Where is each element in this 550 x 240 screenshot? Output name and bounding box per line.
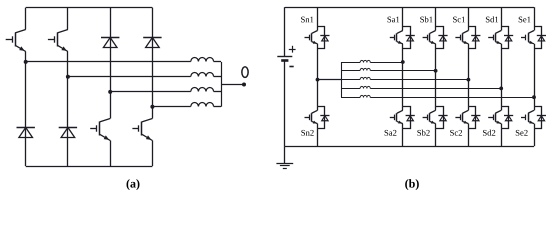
wire leg2 lower segment bbox=[67, 52, 69, 167]
inductor L3 bbox=[191, 88, 214, 92]
wire leg n bottom segment bbox=[317, 128, 319, 146]
switch Sa2 (IGBT + antiparallel diode) bbox=[385, 106, 415, 135]
wire leg b top segment bbox=[435, 7, 437, 26]
switch Sn2 (IGBT + antiparallel diode) bbox=[301, 106, 329, 135]
node leg e midpoint junction bbox=[532, 95, 536, 99]
node leg3 midpoint junction bbox=[108, 90, 112, 94]
switch Sc2 (IGBT + antiparallel diode) bbox=[450, 106, 480, 135]
ground bbox=[276, 164, 293, 169]
switch Se2 (IGBT + antiparallel diode) bbox=[516, 106, 546, 135]
wire output lead to node O bbox=[221, 84, 244, 86]
transistor Q2 (IGBT, leg2 top) bbox=[48, 30, 68, 52]
diode D4 (leg4 top) bbox=[143, 38, 161, 48]
wire leg4 upper segment bbox=[152, 8, 154, 119]
wire bottom DC rail (b) bbox=[285, 146, 534, 148]
wire leg3 upper segment bbox=[110, 8, 112, 119]
node leg c midpoint junction bbox=[467, 78, 471, 82]
wire leg2 midpoint to L2 bbox=[68, 76, 191, 78]
node leg d midpoint junction bbox=[499, 87, 503, 91]
inductor winding La (coupled) bbox=[360, 60, 370, 62]
node leg b midpoint junction bbox=[434, 69, 438, 73]
transistor Q3 (IGBT, leg3 bottom) bbox=[90, 119, 110, 141]
wire winding 1 to leg a bbox=[370, 62, 403, 64]
inductor L2 bbox=[191, 73, 214, 77]
wire L3 to output bus bbox=[214, 91, 221, 93]
wire leg3 emitter segment bbox=[110, 141, 112, 167]
wire leg a middle segment bbox=[402, 49, 404, 107]
wire bus to winding 1 bbox=[341, 62, 360, 64]
wire leg c bottom segment bbox=[468, 128, 470, 146]
wire L4 to output bus bbox=[214, 106, 221, 108]
wire bus to winding 4 bbox=[341, 88, 360, 90]
transistor Q1 (IGBT, leg1 top) bbox=[6, 30, 26, 52]
diode D3 (leg3 top) bbox=[101, 38, 119, 48]
wire leg1 midpoint to L1 bbox=[26, 61, 191, 63]
label (a) bbox=[127, 179, 140, 190]
wire leg d top segment bbox=[501, 7, 503, 26]
wire leg e middle segment bbox=[534, 49, 536, 107]
wire ground lead bbox=[284, 146, 286, 163]
wire winding 3 to leg c bbox=[370, 79, 468, 81]
switch Sc1 (IGBT + antiparallel diode) bbox=[453, 17, 480, 49]
wire leg e bottom segment bbox=[534, 128, 536, 146]
inductor winding Lc (coupled) bbox=[360, 77, 370, 79]
wire leg n middle segment bbox=[317, 49, 319, 107]
switch Sn1 (IGBT + antiparallel diode) bbox=[301, 17, 329, 49]
node leg a midpoint junction bbox=[401, 60, 405, 64]
inductor L1 bbox=[191, 58, 214, 62]
transistor Q4 (IGBT, leg4 bottom) bbox=[132, 119, 152, 141]
wire top DC rail (b) bbox=[285, 7, 534, 9]
wire L2 to output bus bbox=[214, 76, 221, 78]
wire leg2 collector segment bbox=[67, 8, 69, 30]
wire leg d middle segment bbox=[501, 49, 503, 107]
wire winding 2 to leg b bbox=[370, 70, 435, 72]
wire leg1 collector segment bbox=[25, 8, 27, 30]
wire leg a bottom segment bbox=[402, 128, 404, 146]
wire L1 to output bus bbox=[214, 61, 221, 63]
diode D5 (leg1 bottom) bbox=[17, 128, 35, 138]
wire winding 4 to leg d bbox=[370, 88, 501, 90]
switch Sd1 (IGBT + antiparallel diode) bbox=[486, 16, 513, 48]
node Sn leg midpoint junction bbox=[316, 78, 320, 82]
wire winding 5 to leg e bbox=[370, 97, 534, 99]
node leg1 midpoint junction bbox=[24, 60, 28, 64]
wire Sn midpoint to inductor bus bbox=[318, 79, 342, 81]
wire battery negative lead bbox=[284, 60, 286, 146]
wire leg c top segment bbox=[468, 7, 470, 26]
inductor L4 bbox=[191, 102, 214, 106]
wire leg3 midpoint to L3 bbox=[110, 91, 191, 93]
node leg2 midpoint junction bbox=[66, 75, 70, 79]
label node O bbox=[241, 66, 249, 78]
wire bus to winding 5 bbox=[341, 97, 360, 99]
wire leg e top segment bbox=[534, 7, 536, 26]
node leg4 midpoint junction bbox=[150, 105, 154, 109]
switch Sb2 (IGBT + antiparallel diode) bbox=[417, 106, 447, 135]
wire leg b bottom segment bbox=[435, 128, 437, 146]
wire leg b middle segment bbox=[435, 49, 437, 107]
wire leg d bottom segment bbox=[501, 128, 503, 146]
battery V1 (DC source, + top plate / - bottom plate) bbox=[277, 46, 295, 67]
switch Sa1 (IGBT + antiparallel diode) bbox=[387, 17, 414, 49]
switch Sb1 (IGBT + antiparallel diode) bbox=[420, 16, 447, 48]
label (b) bbox=[405, 179, 419, 190]
inductor winding Ld (coupled) bbox=[360, 86, 370, 88]
switch Sd2 (IGBT + antiparallel diode) bbox=[483, 106, 513, 135]
inductor winding Lb (coupled) bbox=[360, 68, 370, 70]
wire bottom DC rail (a) bbox=[26, 166, 153, 168]
wire leg a top segment bbox=[402, 7, 404, 26]
wire battery positive lead bbox=[284, 7, 286, 57]
wire leg n top segment bbox=[317, 7, 319, 26]
inductor winding Le (coupled) bbox=[360, 95, 370, 97]
node O terminal bbox=[242, 83, 246, 87]
wire top DC rail (a) bbox=[26, 7, 153, 9]
wire bus to winding 3 bbox=[341, 79, 360, 81]
wire output bus vertical bbox=[221, 62, 223, 107]
wire leg c middle segment bbox=[468, 49, 470, 107]
wire leg4 emitter segment bbox=[152, 141, 154, 167]
wire inductor input bus vertical bbox=[341, 62, 343, 97]
wire leg1 lower segment bbox=[25, 52, 27, 167]
wire bus to winding 2 bbox=[341, 70, 360, 72]
switch Se1 (IGBT + antiparallel diode) bbox=[519, 17, 546, 49]
wire leg4 midpoint to L4 bbox=[152, 106, 190, 108]
diode D6 (leg2 bottom) bbox=[59, 128, 77, 138]
